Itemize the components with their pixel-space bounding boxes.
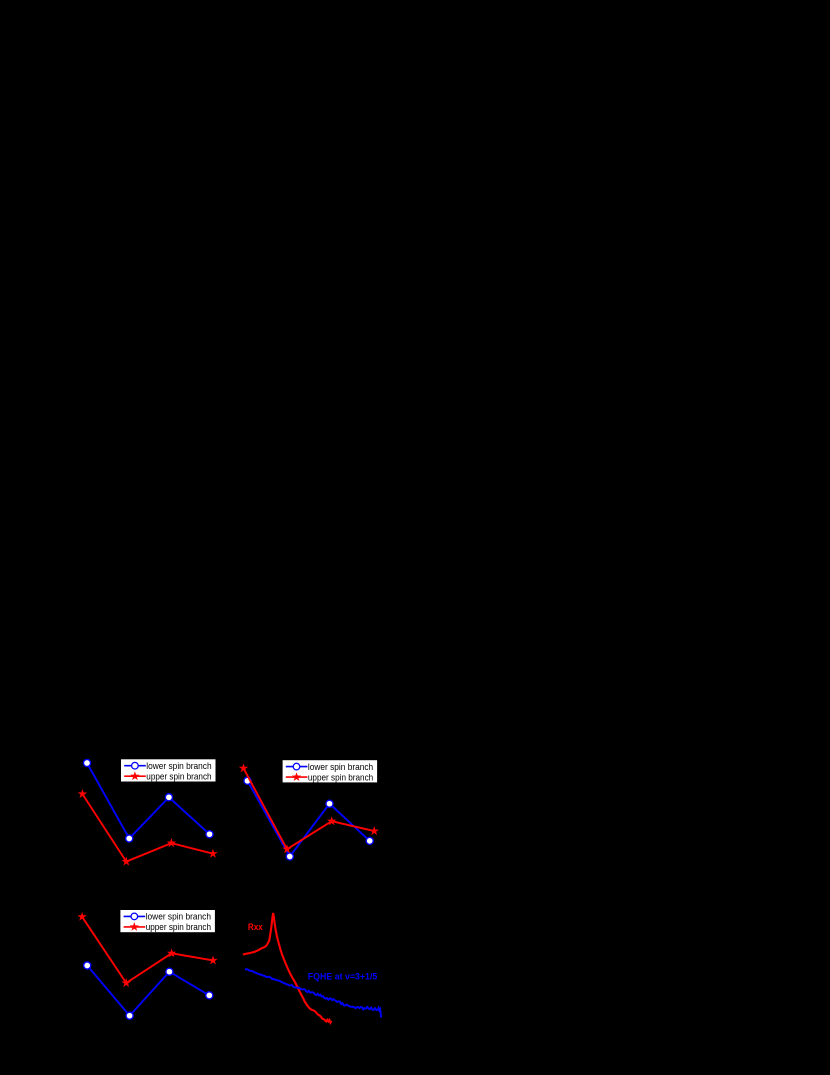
chart 1 legend red sample line [124,775,146,777]
chart 3 lower spin branch circle marker 2 [126,1012,133,1019]
chart 1 lower spin branch line [87,763,210,839]
chart 2 upper spin branch star marker 1 [239,763,248,772]
chart 3 upper spin branch star marker 1 [77,912,86,921]
chart 2 upper spin branch star marker 4 [369,826,378,835]
svg-text:upper spin branch: upper spin branch [146,771,211,781]
chart 2 legend box [283,760,378,782]
chart 3 upper spin branch star marker 2 [121,978,130,987]
chart 1 lower spin branch circle marker 4 [206,831,213,838]
chart 1 lower spin branch circle marker 1 [83,759,90,766]
chart 2 lower spin branch circle marker 2 [286,853,293,860]
chart 3 legend blue circle marker [131,913,138,920]
chart 1 legend blue sample line [124,765,146,767]
chart 1 legend box [121,759,216,781]
chart 1 upper spin branch star marker 1 [78,789,87,798]
chart 3 lower spin branch circle marker 4 [206,992,213,999]
chart 1 upper spin branch star marker 2 [122,857,131,866]
chart 3 legend blue sample line [124,915,146,917]
chart 1 upper spin branch star marker 4 [208,849,217,858]
chart 2 lower spin branch circle marker 4 [366,837,373,844]
chart 3 upper spin branch line [82,917,213,983]
svg-text:Rxx: Rxx [248,922,264,932]
chart 2 lower spin branch circle marker 1 [244,777,251,784]
chart 1 upper spin branch star marker 3 [167,838,176,847]
svg-text:lower spin branch: lower spin branch [146,912,211,922]
chart 3 legend box [120,910,214,932]
chart 3 lower spin branch line [87,966,209,1016]
chart 2 legend blue circle marker [293,763,300,770]
svg-text:upper spin branch: upper spin branch [146,922,211,932]
chart 3 upper spin branch star marker 4 [208,955,217,964]
chart 3 lower spin branch circle marker 1 [84,962,91,969]
chart 4 blue FQHE noisy line [245,969,381,1018]
svg-text:lower spin branch: lower spin branch [308,762,373,772]
chart 3 lower spin branch circle marker 3 [166,968,173,975]
chart 2 upper spin branch star marker 2 [282,844,291,853]
chart 4 red Rxx curve with peak [243,913,332,1023]
chart 1 lower spin branch circle marker 2 [126,835,133,842]
chart 3 legend red sample line [124,926,146,928]
chart 2 upper spin branch star marker 3 [327,816,336,825]
chart 3 legend red star marker [130,922,139,931]
chart 2 legend red sample line [286,776,308,778]
svg-text:lower spin branch: lower spin branch [146,761,211,771]
svg-text:upper spin branch: upper spin branch [308,772,373,782]
chart 1 legend blue circle marker [132,762,139,769]
chart 2 legend blue sample line [286,766,308,768]
chart 1 legend red star marker [130,771,139,780]
chart 2 lower spin branch line [248,781,370,857]
chart 3 upper spin branch star marker 3 [167,948,176,957]
chart 2 lower spin branch circle marker 3 [326,800,333,807]
svg-text:FQHE at ν=3+1/5: FQHE at ν=3+1/5 [308,972,378,982]
chart 2 legend red star marker [292,772,301,781]
chart 1 lower spin branch circle marker 3 [165,794,172,801]
chart 2 upper spin branch line [244,768,375,849]
chart 1 upper spin branch line [82,794,213,862]
